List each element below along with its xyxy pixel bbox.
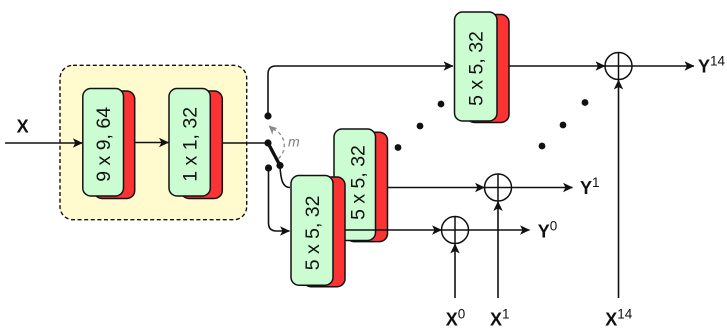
conv layer front 5x5,32 shadow: [303, 177, 345, 287]
svg-text:X: X: [17, 117, 29, 137]
svg-text:9 x 9, 64: 9 x 9, 64: [93, 107, 115, 182]
wire adder Y0 to output: [469, 229, 530, 231]
wire X0 up into adder Y0: [454, 244, 456, 298]
switch rotation arrowhead: [269, 125, 278, 134]
switch lever: [268, 143, 280, 166]
wire back 5x5 conv to adder Y1: [370, 187, 485, 189]
switch rotation dashed arc: [274, 130, 284, 159]
adder Y14 circle-plus: [605, 53, 632, 80]
ellipsis dots upper diagonal: [539, 143, 546, 150]
wire front 5x5 conv to adder Y0: [330, 229, 442, 231]
conv layer 9x9,64 shadow: [94, 91, 135, 199]
wire X input arrow into 9x9 conv: [5, 142, 82, 144]
conv layer top 5x5,32 box: [455, 12, 498, 121]
feature extraction dashed container: [60, 65, 247, 219]
conv layer 1x1,32 box: [169, 89, 210, 197]
wire top 5x5 conv to adder Y14: [497, 65, 605, 67]
svg-text:Y1: Y1: [580, 175, 600, 198]
switch lower contact dot: [265, 164, 272, 171]
conv layer back 5x5,32 box: [334, 129, 376, 241]
switch top contact dot: [264, 112, 271, 119]
wire 9x9 to 1x1 arrow: [136, 142, 169, 144]
conv layer 1x1,32 shadow: [181, 91, 222, 199]
svg-text:m: m: [288, 134, 300, 150]
wire adder Y14 to output: [632, 65, 694, 67]
conv layer top 5x5,32 shadow: [467, 15, 510, 123]
svg-text:5 x 5, 32: 5 x 5, 32: [347, 145, 369, 220]
svg-text:X1: X1: [490, 307, 510, 330]
svg-text:X0: X0: [446, 307, 466, 330]
conv layer 9x9,64 box: [83, 89, 124, 197]
adder Y1 circle-plus: [485, 174, 512, 201]
wire switch lower contact down into front 5x5 conv: [269, 168, 290, 231]
wire X14 up into adder Y14: [618, 80, 620, 298]
switch lever end dot: [276, 162, 283, 169]
svg-text:5 x 5, 32: 5 x 5, 32: [466, 31, 488, 106]
svg-text:Y0: Y0: [538, 219, 558, 242]
wire X1 up into adder Y1: [497, 202, 499, 299]
wire lever to back 5x5 conv: [280, 167, 290, 188]
svg-text:1 x 1, 32: 1 x 1, 32: [180, 107, 202, 182]
ellipsis dots lower diagonal: [395, 144, 402, 151]
svg-text:X14: X14: [605, 307, 633, 330]
svg-text:Y14: Y14: [698, 54, 726, 77]
adder Y0 circle-plus: [442, 217, 469, 244]
svg-text:5 x 5, 32: 5 x 5, 32: [302, 195, 324, 270]
conv layer front 5x5,32 box: [291, 176, 333, 286]
switch pivot dot: [264, 139, 271, 146]
wire switch top contact to 5x5 top conv: [268, 66, 453, 116]
wire 1x1 to switch pivot: [222, 142, 268, 144]
wire adder Y1 to output: [512, 187, 573, 189]
conv layer back 5x5,32 shadow: [346, 132, 388, 241]
